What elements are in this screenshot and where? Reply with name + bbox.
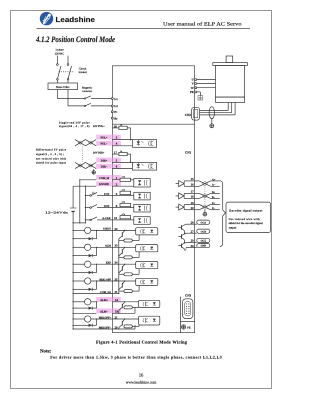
emitter bus [118, 239, 119, 294]
twisted pair PUL [75, 140, 96, 146]
resistor R-NOT [120, 203, 131, 207]
svg-text:NOT: NOT [104, 205, 110, 208]
encoder shield ground [203, 210, 207, 216]
transistor Q-ALMP [119, 302, 125, 314]
svg-text:16: 16 [139, 372, 144, 377]
svg-text:33: 33 [115, 244, 119, 248]
label underline B+ [212, 192, 220, 194]
svg-text:18: 18 [191, 195, 195, 199]
shield ground symbol [210, 124, 214, 128]
svg-text:ALM−: ALM− [100, 310, 108, 313]
svg-text:14: 14 [115, 298, 119, 302]
transistor OCB [178, 233, 186, 243]
node join b [79, 222, 80, 223]
wire pin6 to opto [112, 168, 132, 170]
svg-text:P+: P+ [114, 110, 118, 114]
rail battery plus [79, 180, 81, 223]
transistor Q-EXP [119, 264, 125, 273]
twisted pair DIR [75, 162, 96, 168]
svg-text:ALM+: ALM+ [100, 299, 108, 302]
pin 19 tick [184, 204, 195, 206]
wire pin33 internal [112, 247, 135, 248]
svg-text:220VAC: 220VAC [55, 52, 65, 55]
diode D-EXP [73, 264, 98, 275]
connector CN3 [183, 299, 193, 319]
svg-text:contactor: contactor [82, 90, 92, 93]
label 24VGND pin 2 [96, 181, 121, 186]
wire contactor to L2 [91, 105, 111, 107]
transistor OCZ [178, 242, 186, 250]
wire pin32 internal [112, 230, 135, 231]
pin POT tick [112, 195, 133, 197]
CN3 cell divider vertical [179, 297, 181, 333]
svg-text:17: 17 [191, 190, 195, 194]
circuit breaker pole 1 [57, 64, 61, 80]
svg-text:ALM: ALM [105, 245, 112, 248]
svg-text:PUL+: PUL+ [101, 136, 108, 139]
relay load ALM+ [73, 299, 97, 305]
switch A-CLR [85, 217, 113, 221]
wire pin20 internal [112, 325, 135, 330]
earth symbol box [198, 96, 203, 100]
svg-text:OCA: OCA [201, 221, 207, 224]
wire AC input N [67, 56, 69, 64]
battery 12-24Vdc [70, 208, 77, 212]
svg-text:BRK-OFF: BRK-OFF [99, 278, 111, 281]
shield ground wire [211, 119, 213, 124]
wire pin35 internal [112, 280, 135, 281]
motor body [216, 65, 245, 97]
opto out U-SRDY [136, 228, 158, 235]
diode D-SRDY [73, 230, 98, 241]
svg-text:output: output [229, 226, 237, 229]
opto out U-BRK [136, 278, 158, 285]
wire COM_M row [80, 179, 120, 181]
shield dashed encoder [204, 187, 206, 205]
label box GND [197, 244, 210, 248]
wire pin21 internal [112, 318, 138, 319]
contactor switch 2 [84, 103, 90, 106]
svg-text:Z−: Z− [212, 207, 216, 210]
svg-text:24V PUL+: 24V PUL+ [93, 125, 105, 128]
resistor R-ALMP [124, 306, 139, 309]
resistor R-ALM [119, 252, 139, 259]
label PUL+ pin 3 [96, 135, 121, 140]
optocoupler U-ACLR [134, 217, 150, 225]
wire AC input L [56, 56, 58, 64]
breaker tie dashed [59, 71, 74, 73]
wire U to motor [197, 79, 216, 81]
svg-text:CN2: CN2 [185, 113, 192, 117]
rail output loads [72, 223, 74, 329]
svg-text:24V DIR+: 24V DIR+ [93, 152, 105, 155]
label underline B- [212, 197, 220, 199]
wire breaker to filter 1 [56, 80, 58, 83]
terminal V [195, 83, 197, 85]
svg-text:EXP: EXP [106, 262, 112, 265]
transistor Q-SRDY [119, 230, 125, 239]
wire R17 to node [127, 154, 130, 162]
svg-text:CN3: CN3 [185, 293, 192, 297]
relay load BRKOFF+ [73, 316, 113, 322]
wire pin34 internal [112, 264, 135, 265]
svg-text:Magnetic: Magnetic [82, 86, 93, 89]
svg-text:CN1: CN1 [185, 150, 192, 154]
svg-text:Leadshine: Leadshine [56, 15, 96, 24]
svg-text:COM_M: COM_M [99, 177, 110, 180]
svg-text:19: 19 [115, 309, 119, 313]
wire R36 to node [127, 128, 130, 140]
wire V to motor [197, 83, 216, 85]
node switch rail top [85, 186, 86, 187]
label DIR+ pin 5 [96, 158, 121, 163]
svg-text:PE: PE [190, 90, 194, 94]
node join a [73, 222, 74, 223]
optocoupler U-POT [134, 192, 150, 200]
wire ALM- external [73, 313, 97, 314]
switch NOT [85, 205, 113, 209]
svg-text:DIR−: DIR− [101, 166, 108, 169]
svg-text:A−: A− [212, 184, 216, 187]
svg-text:OCB: OCB [201, 230, 207, 233]
svg-text:12~24Vdc: 12~24Vdc [45, 211, 69, 215]
svg-text:Noise Filter: Noise Filter [56, 85, 70, 89]
svg-text:use twisted wire with: use twisted wire with [36, 157, 67, 160]
resistor R-POT [120, 191, 131, 195]
motor shaft [226, 56, 233, 63]
annotation callout box [226, 202, 271, 232]
svg-text:Use twisted wire with: Use twisted wire with [229, 218, 261, 221]
svg-text:19: 19 [191, 201, 195, 205]
contactor switch 1 [84, 96, 90, 99]
svg-text:signal(36 , 4 , 17 , 6): signal(36 , 4 , 17 , 6) [59, 125, 90, 128]
pin 26 tick [186, 223, 197, 225]
line driver A [176, 181, 185, 187]
pin 30 tick [186, 247, 197, 249]
optocoupler U-DIR [132, 162, 156, 170]
twisted pair Z [195, 205, 212, 210]
encoder cable verticals [228, 102, 235, 115]
svg-text:Circuit: Circuit [79, 68, 87, 71]
transistor Q-BRK [119, 281, 125, 290]
svg-text:2k: 2k [120, 150, 122, 153]
pin 17 tick and wire [112, 153, 119, 155]
diode D-ALM [73, 247, 98, 258]
svg-text:GND: GND [201, 245, 207, 248]
CN3 cell divider horizontal [180, 320, 194, 322]
rail switch common [84, 186, 86, 223]
svg-text:DIR+: DIR+ [101, 159, 108, 162]
svg-text:21: 21 [115, 315, 119, 319]
transistor Q-ALM [119, 247, 125, 256]
resistor R36 [119, 126, 127, 129]
optocoupler U-PUL [132, 140, 156, 148]
svg-text:20: 20 [191, 206, 195, 210]
label box OCZ [197, 238, 210, 242]
diode D-BRKP [73, 318, 98, 327]
resistor R17 [119, 152, 127, 155]
svg-text:www.leadshine.com: www.leadshine.com [126, 381, 157, 385]
noise filter box [48, 83, 78, 90]
resistor R-ACLR [120, 216, 131, 220]
wire pin4 to opto [112, 145, 132, 147]
rail bottom join [73, 222, 85, 224]
pin 27 tick [186, 232, 197, 234]
svg-text:COM_SG: COM_SG [100, 291, 111, 294]
wire pin5 to opto [112, 161, 132, 163]
svg-text:2k: 2k [120, 124, 122, 127]
wire 24VGND row [73, 185, 134, 187]
svg-text:B+: B+ [212, 191, 216, 194]
svg-text:Figure 4-1 Positional Control: Figure 4-1 Positional Control Mode Wirin… [96, 339, 188, 344]
label ALM+ pin 14 [96, 297, 121, 302]
svg-text:1-phase: 1-phase [55, 49, 64, 52]
label underline Z+ [212, 204, 220, 206]
svg-text:24VGND: 24VGND [99, 183, 109, 186]
svg-text:BRKOFF−: BRKOFF− [99, 326, 112, 329]
wire PE to earth [197, 92, 201, 96]
terminal PE [195, 91, 197, 93]
svg-text:shield for the encoder signal: shield for the encoder signal [229, 222, 263, 225]
PE ground symbol [181, 325, 185, 329]
twisted pair B [195, 193, 212, 198]
terminal L1 [111, 98, 113, 100]
resistor R-COM [120, 178, 131, 181]
relay load BRK-OFF [73, 278, 113, 284]
terminal Br [111, 117, 113, 119]
wire R-COM to opto [131, 179, 134, 181]
relay load S-RDY [73, 227, 113, 233]
label box OCB [197, 229, 210, 233]
optocoupler U-COM [134, 179, 150, 187]
pin A-CLR tick [112, 219, 133, 221]
connector CN2 [192, 107, 200, 120]
svg-text:Z+: Z+ [212, 202, 216, 205]
svg-text:B−: B− [212, 196, 216, 199]
svg-text:4.7k: 4.7k [122, 189, 125, 192]
wire W to motor [197, 87, 216, 89]
resistor R-EXP [119, 269, 139, 276]
svg-text:10: 10 [114, 216, 118, 220]
svg-text:S-RDY: S-RDY [103, 228, 111, 231]
pin 36 tick and wire [112, 127, 119, 129]
svg-text:PUL−: PUL− [101, 143, 108, 146]
label underline Z- [212, 209, 220, 211]
optocoupler U-NOT [134, 204, 150, 212]
pin 16 tick [184, 185, 195, 187]
wire BRKOFF- external [73, 328, 113, 329]
resistor R-SRDY [119, 235, 139, 242]
svg-text:User manual of ELP AC Servo: User manual of ELP AC Servo [163, 22, 242, 28]
diode D-BRK [73, 280, 98, 291]
svg-text:A-CLR: A-CLR [102, 217, 110, 220]
svg-text:PE: PE [187, 326, 191, 329]
page frame [11, 11, 272, 389]
svg-text:L1: L1 [114, 97, 118, 101]
rail battery minus [72, 186, 74, 223]
brace encoder group [220, 181, 226, 247]
pin 29 tick [186, 241, 197, 243]
svg-text:4.7k: 4.7k [122, 201, 125, 204]
encoder cable horizontals [200, 111, 235, 115]
svg-text:Differential 5V pulse: Differential 5V pulse [36, 149, 67, 152]
driver section separator [112, 123, 194, 125]
node join c [85, 222, 86, 223]
shield dashed link [82, 147, 84, 162]
svg-text:29: 29 [191, 239, 195, 243]
wire contactor to L1 [91, 98, 111, 100]
line driver Z [176, 204, 185, 210]
wire pin3 to opto [112, 139, 132, 141]
svg-text:20: 20 [115, 325, 119, 329]
svg-text:signal(3 , 4 , 5 , 6) ;: signal(3 , 4 , 5 , 6) ; [36, 153, 64, 156]
opto out U-BRKP [139, 316, 160, 325]
label PUL- pin 4 [96, 141, 121, 146]
line driver B [176, 193, 185, 199]
cable shield clamp [209, 107, 214, 119]
label underline A- [212, 185, 220, 187]
svg-text:34: 34 [115, 261, 119, 265]
terminal U [195, 79, 197, 81]
node COM rail [79, 179, 80, 180]
opto out U-ALMP [139, 300, 160, 307]
svg-text:POT: POT [104, 193, 110, 196]
label underline A+ [212, 180, 220, 182]
motor end bell [216, 97, 245, 102]
relay load EXP [73, 261, 113, 267]
resistor R-BRKP [124, 325, 139, 328]
wire filter to contactor 2 [68, 90, 84, 106]
circuit breaker pole 2 [67, 64, 71, 80]
svg-text:30: 30 [191, 244, 195, 248]
label COM_M pin 1 [96, 175, 121, 180]
svg-text:27: 27 [191, 230, 195, 234]
svg-text:shield for pulse input: shield for pulse input [36, 162, 66, 165]
pin 20 tick [184, 209, 195, 211]
svg-text:For driver more than 1.5kw, 3: For driver more than 1.5kw, 3 phase is b… [50, 356, 222, 360]
terminal L2 [111, 105, 113, 107]
svg-text:32: 32 [115, 227, 119, 231]
transistor OCA [178, 224, 186, 234]
svg-text:4.7k: 4.7k [122, 176, 125, 179]
motor flange [213, 63, 248, 66]
svg-text:15: 15 [191, 177, 195, 181]
svg-text:35: 35 [115, 277, 119, 281]
header rule [37, 27, 251, 29]
twisted pair A [195, 181, 212, 186]
opto out U-ALM [136, 245, 158, 252]
svg-text:A+: A+ [212, 178, 216, 181]
wire pin19 internal [112, 308, 135, 314]
wire COM_SG row [73, 293, 120, 294]
logo Leadshine mark [40, 12, 53, 25]
transistor Q-BRKP [119, 319, 125, 329]
svg-text:BRKOFF+: BRKOFF+ [99, 316, 112, 319]
svg-text:4.1.2 Position Control Mode: 4.1.2 Position Control Mode [35, 35, 115, 44]
diode D-ALMP [73, 301, 98, 310]
svg-text:31: 31 [115, 290, 119, 294]
pin NOT tick [112, 207, 133, 209]
wire filter to contactor 1 [57, 90, 84, 99]
svg-text:OCZ: OCZ [201, 240, 207, 243]
resistor R-BRK [119, 286, 139, 293]
svg-text:breaker: breaker [79, 71, 87, 74]
pin 17 tick [184, 192, 195, 194]
pin 15 tick [184, 180, 195, 182]
wire breaker to filter 2 [67, 80, 69, 83]
opto out U-EXP [136, 262, 158, 269]
node PUL+ [130, 139, 131, 140]
node DIR+ [130, 162, 131, 163]
relay load ALM [73, 244, 113, 250]
svg-text:16: 16 [191, 183, 195, 187]
svg-text:Note:: Note: [40, 348, 52, 354]
label ALM- pin 19 [96, 309, 121, 314]
svg-text:26: 26 [191, 221, 195, 225]
svg-text:L2: L2 [114, 104, 118, 108]
terminal W [195, 87, 197, 89]
label box OCA [197, 220, 210, 224]
pin 18 tick [184, 197, 195, 199]
wire GND common [185, 248, 186, 251]
svg-text:Encoder signal output: Encoder signal output [229, 208, 262, 212]
switch POT [85, 192, 113, 196]
driver box [112, 66, 194, 333]
pulse shield ground [92, 169, 95, 174]
svg-text:4.7k: 4.7k [122, 213, 125, 216]
terminal P+ [111, 111, 113, 113]
label DIR- pin 6 [96, 164, 121, 169]
wire pin14 internal [112, 301, 138, 302]
